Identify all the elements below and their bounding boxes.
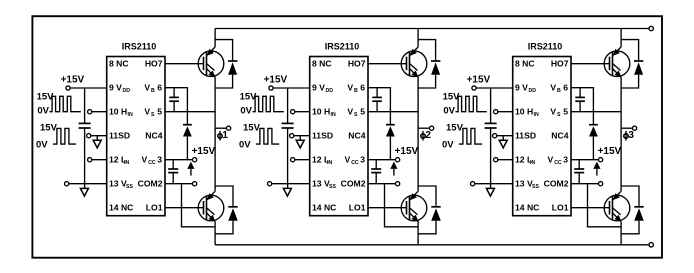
svg-text:3: 3: [628, 130, 634, 141]
svg-text:1: 1: [222, 130, 228, 141]
svg-text:2: 2: [425, 130, 431, 141]
